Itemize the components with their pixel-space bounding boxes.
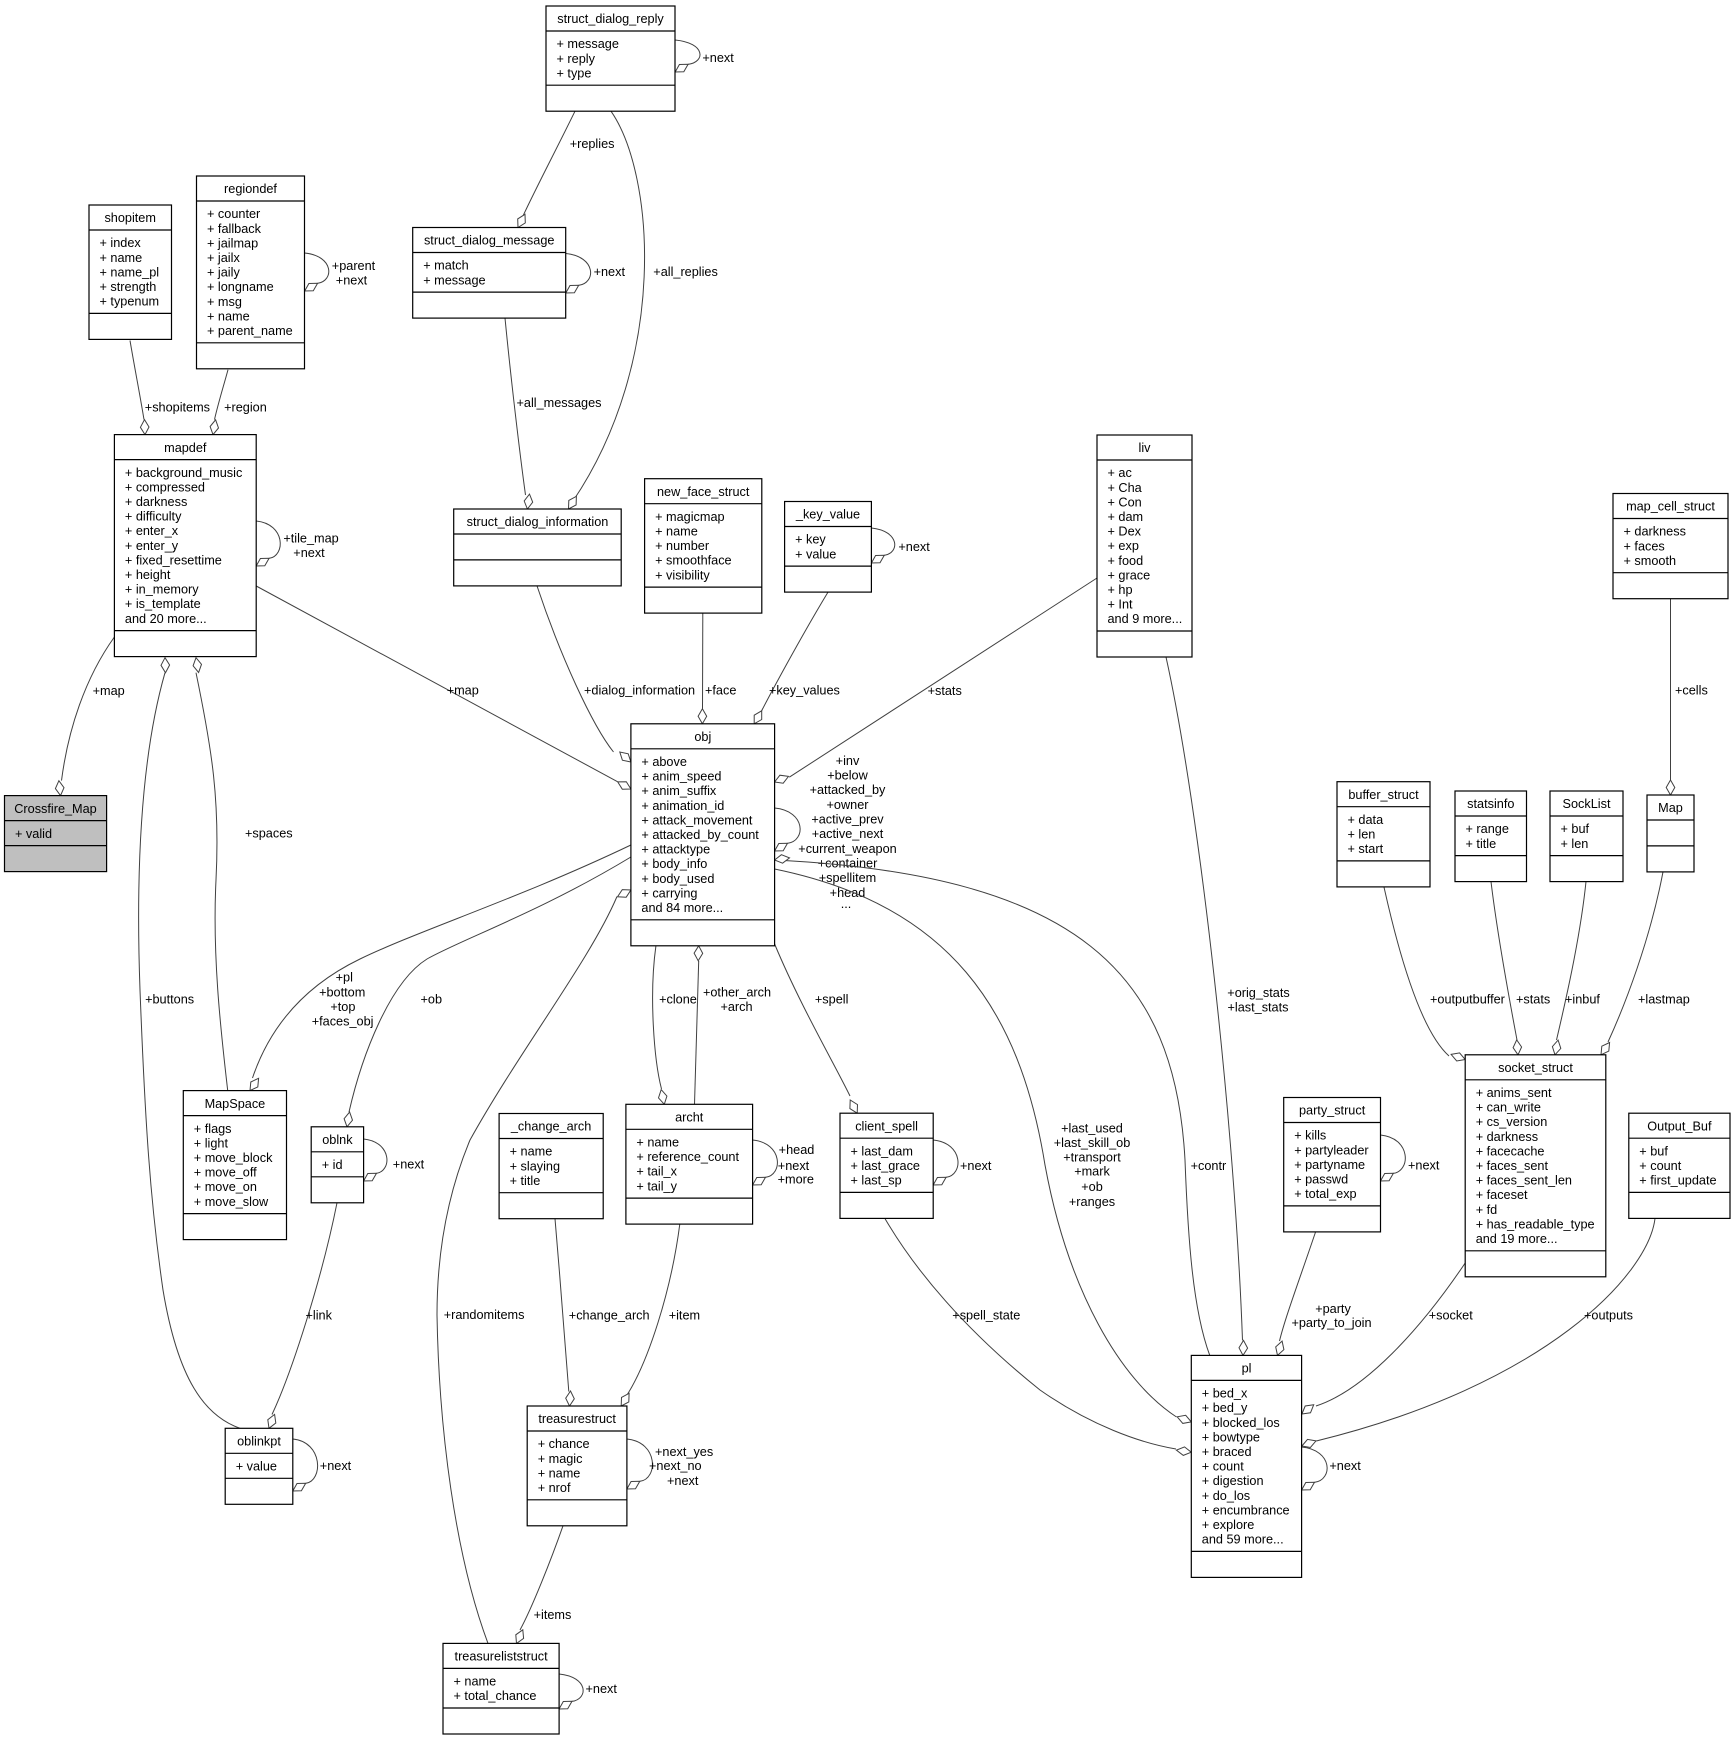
node Output_Buf [1629, 1113, 1730, 1218]
node struct_dialog_information [454, 509, 622, 586]
svg-text:+ passwd: + passwd [1294, 1173, 1348, 1187]
svg-text:+next: +next [336, 274, 368, 288]
svg-text:+ title: + title [1466, 837, 1497, 851]
wire sdm to sdi all_messages [505, 318, 601, 509]
svg-text:and 20 more...: and 20 more... [125, 612, 207, 626]
svg-text:+ name: + name [207, 309, 250, 323]
svg-text:+ range: + range [1466, 822, 1509, 836]
svg-text:+ total_exp: + total_exp [1294, 1187, 1356, 1201]
svg-text:+ob: +ob [421, 992, 443, 1006]
svg-text:+ Int: + Int [1108, 598, 1134, 612]
svg-text:+ fallback: + fallback [207, 222, 262, 236]
svg-text:+replies: +replies [570, 137, 615, 151]
svg-text:+ name: + name [454, 1675, 497, 1689]
wire socket to pl socket [1302, 1263, 1473, 1414]
svg-text:+all_messages: +all_messages [517, 396, 602, 410]
svg-text:+mark: +mark [1074, 1165, 1110, 1179]
node _key_value [785, 502, 872, 593]
svg-text:oblinkpt: oblinkpt [237, 1435, 281, 1449]
svg-text:+ jaily: + jaily [207, 266, 240, 280]
svg-text:+ attack_movement: + attack_movement [641, 813, 753, 827]
svg-text:+tile_map: +tile_map [283, 532, 338, 546]
svg-text:+ key: + key [795, 533, 826, 547]
svg-text:_key_value: _key_value [795, 508, 860, 522]
svg-text:obj: obj [694, 730, 711, 744]
svg-text:+spaces: +spaces [245, 827, 293, 841]
svg-text:+ move_off: + move_off [194, 1166, 257, 1180]
svg-text:+ partyname: + partyname [1294, 1158, 1365, 1172]
svg-text:+head: +head [779, 1143, 815, 1157]
svg-text:+ Dex: + Dex [1108, 525, 1142, 539]
svg-text:pl: pl [1242, 1362, 1252, 1376]
svg-text:+last_skill_ob: +last_skill_ob [1054, 1136, 1131, 1150]
svg-text:+orig_stats: +orig_stats [1227, 986, 1289, 1000]
svg-text:+ faceset: + faceset [1476, 1188, 1528, 1202]
svg-text:archt: archt [675, 1111, 704, 1125]
svg-text:+face: +face [705, 683, 736, 697]
svg-text:+ Cha: + Cha [1108, 481, 1143, 495]
svg-text:+ reply: + reply [557, 52, 596, 66]
svg-text:+dialog_information: +dialog_information [584, 683, 695, 697]
wire socklist to socket inbuf [1552, 882, 1600, 1055]
svg-text:+ grace: + grace [1108, 568, 1151, 582]
node shopitem [89, 205, 172, 339]
svg-text:+current_weapon: +current_weapon [798, 842, 896, 856]
svg-text:+next: +next [393, 1158, 425, 1172]
svg-text:+other_arch: +other_arch [703, 985, 771, 999]
svg-text:+ nrof: + nrof [538, 1481, 571, 1495]
svg-text:+ jailx: + jailx [207, 251, 240, 265]
svg-text:+ type: + type [557, 66, 592, 80]
node _change_arch [499, 1114, 603, 1219]
svg-text:+ counter: + counter [207, 207, 261, 221]
svg-text:+cells: +cells [1675, 683, 1708, 697]
svg-text:+ faces: + faces [1624, 539, 1665, 553]
svg-text:+ exp: + exp [1108, 539, 1139, 553]
svg-text:+ value: + value [236, 1460, 277, 1474]
svg-text:+ parent_name: + parent_name [207, 324, 293, 338]
svg-text:+ facecache: + facecache [1476, 1144, 1545, 1158]
svg-text:+ blocked_los: + blocked_los [1202, 1416, 1280, 1430]
svg-text:+ darkness: + darkness [125, 495, 187, 509]
svg-text:+ buf: + buf [1639, 1144, 1668, 1158]
wire sdr to sdi all_replies [569, 111, 718, 509]
node pl [1191, 1355, 1301, 1577]
svg-text:+ message: + message [423, 273, 485, 287]
svg-text:+ magic: + magic [538, 1452, 583, 1466]
wire obj to pl contr [775, 855, 1227, 1355]
svg-text:+ carrying: + carrying [641, 886, 697, 900]
svg-text:+next: +next [594, 265, 626, 279]
svg-text:+attacked_by: +attacked_by [810, 783, 886, 797]
svg-text:buffer_struct: buffer_struct [1348, 788, 1419, 802]
svg-text:+ count: + count [1202, 1460, 1244, 1474]
wire struct_dialog_message next loop [566, 254, 626, 294]
svg-text:+spell: +spell [815, 992, 849, 1006]
svg-text:+next: +next [960, 1159, 992, 1173]
svg-text:+ compressed: + compressed [125, 480, 205, 494]
node struct_dialog_reply [546, 6, 675, 111]
svg-text:struct_dialog_information: struct_dialog_information [467, 515, 609, 529]
svg-text:mapdef: mapdef [164, 441, 207, 455]
wire obj to archt other_arch/arch [694, 946, 771, 1105]
svg-text:+pl: +pl [336, 971, 353, 985]
svg-text:+ smoothface: + smoothface [655, 554, 732, 568]
svg-text:+ flags: + flags [194, 1122, 232, 1136]
node map_cell_struct [1613, 494, 1728, 599]
wire sdr to sdm replies [518, 111, 615, 227]
svg-text:+ partyleader: + partyleader [1294, 1143, 1369, 1157]
wire oblinkpt next loop [293, 1439, 352, 1491]
svg-text:+owner: +owner [827, 798, 870, 812]
svg-text:+items: +items [534, 1608, 572, 1622]
svg-text:+next: +next [667, 1474, 699, 1488]
svg-text:+ Con: + Con [1108, 495, 1142, 509]
svg-text:Map: Map [1658, 801, 1683, 815]
svg-text:+ name: + name [510, 1145, 553, 1159]
node oblinkpt [225, 1428, 293, 1504]
node regiondef [197, 176, 305, 369]
wire oblnk to oblinkpt link [268, 1203, 337, 1429]
svg-text:+randomitems: +randomitems [444, 1308, 525, 1322]
svg-text:+ background_music: + background_music [125, 466, 243, 480]
node struct_dialog_message [413, 228, 566, 319]
svg-text:new_face_struct: new_face_struct [657, 485, 750, 499]
svg-text:+stats: +stats [928, 684, 962, 698]
wire party_struct next loop [1381, 1135, 1440, 1181]
wire obj to cspell spell [775, 944, 858, 1113]
svg-text:+ last_grace: + last_grace [851, 1159, 920, 1173]
svg-text:+ magicmap: + magicmap [655, 510, 724, 524]
wire obj to pl last_used stack [775, 869, 1192, 1423]
svg-text:+next_yes: +next_yes [655, 1445, 713, 1459]
svg-text:+spell_state: +spell_state [952, 1308, 1020, 1322]
wire shopitem to mapdef shopitems [130, 341, 210, 435]
svg-text:+ cs_version: + cs_version [1476, 1115, 1548, 1129]
node buffer_struct [1337, 782, 1430, 887]
node archt [626, 1104, 753, 1224]
svg-text:+ data: + data [1348, 813, 1385, 827]
svg-text:+ anims_sent: + anims_sent [1476, 1086, 1552, 1100]
svg-text:+ move_slow: + move_slow [194, 1195, 269, 1209]
svg-text:+parent: +parent [332, 259, 376, 273]
wire archt head/next/more loop [753, 1140, 815, 1186]
wire sdi to obj dialog_information [537, 586, 695, 762]
svg-text:treasureliststruct: treasureliststruct [455, 1650, 549, 1664]
svg-text:+ title: + title [510, 1174, 541, 1188]
svg-text:+ move_on: + move_on [194, 1180, 257, 1194]
wire kv to obj key_values [754, 592, 840, 724]
svg-text:+all_replies: +all_replies [653, 265, 718, 279]
svg-text:+ reference_count: + reference_count [636, 1150, 739, 1164]
svg-text:+last_used: +last_used [1061, 1121, 1123, 1135]
svg-text:+ name: + name [636, 1136, 679, 1150]
svg-text:+ attacktype: + attacktype [641, 843, 710, 857]
svg-text:+ tail_y: + tail_y [636, 1179, 677, 1193]
node obj [631, 724, 775, 946]
wire obj randomitems to tls [437, 890, 631, 1644]
wire cspell to pl spell_state [885, 1219, 1191, 1456]
wire obj to mapspace pl stack [250, 845, 631, 1091]
svg-text:Crossfire_Map: Crossfire_Map [14, 802, 97, 816]
svg-text:+next_no: +next_no [649, 1459, 702, 1473]
svg-text:+map: +map [93, 684, 125, 698]
svg-text:+inbuf: +inbuf [1565, 992, 1600, 1006]
wire mapdef to obj map [256, 586, 631, 789]
svg-text:struct_dialog_message: struct_dialog_message [424, 234, 554, 248]
svg-text:+faces_obj: +faces_obj [312, 1015, 374, 1029]
wire mcs to map cells [1666, 599, 1708, 795]
svg-text:+ faces_sent: + faces_sent [1476, 1159, 1549, 1173]
svg-text:+contr: +contr [1191, 1159, 1227, 1173]
svg-text:+ in_memory: + in_memory [125, 583, 199, 597]
svg-text:+ animation_id: + animation_id [641, 799, 724, 813]
wire ts to tls items [516, 1526, 572, 1644]
svg-text:socket_struct: socket_struct [1498, 1061, 1573, 1075]
svg-text:+ first_update: + first_update [1639, 1174, 1716, 1188]
svg-text:+ braced: + braced [1202, 1445, 1252, 1459]
svg-text:+ move_block: + move_block [194, 1151, 273, 1165]
svg-text:+outputbuffer: +outputbuffer [1430, 992, 1506, 1006]
svg-text:+active_prev: +active_prev [811, 813, 884, 827]
svg-text:+stats: +stats [1516, 992, 1550, 1006]
wire obj self loop [775, 754, 897, 911]
svg-text:+ chance: + chance [538, 1437, 590, 1451]
svg-text:+ explore: + explore [1202, 1518, 1255, 1532]
svg-text:client_spell: client_spell [855, 1119, 918, 1133]
svg-text:+ hp: + hp [1108, 583, 1133, 597]
svg-text:SockList: SockList [1563, 797, 1611, 811]
svg-text:+ has_readable_type: + has_readable_type [1476, 1217, 1595, 1231]
wire client_spell next loop [933, 1140, 992, 1185]
svg-text:struct_dialog_reply: struct_dialog_reply [557, 12, 664, 26]
wire buf to socket outputbuffer [1384, 887, 1506, 1061]
svg-text:party_struct: party_struct [1299, 1104, 1366, 1118]
wire obuf to pl outputs [1302, 1219, 1655, 1448]
svg-text:+ last_dam: + last_dam [851, 1144, 913, 1158]
svg-text:+ kills: + kills [1294, 1129, 1326, 1143]
svg-text:+ light: + light [194, 1136, 229, 1150]
node statsinfo [1455, 791, 1527, 882]
svg-text:+ faces_sent_len: + faces_sent_len [1476, 1174, 1572, 1188]
svg-text:+ranges: +ranges [1069, 1195, 1115, 1209]
wire pl next loop [1302, 1447, 1362, 1490]
wire struct_dialog_reply next loop [675, 40, 734, 72]
svg-text:+ id: + id [322, 1158, 343, 1172]
svg-text:+ anim_suffix: + anim_suffix [641, 784, 717, 798]
svg-text:and 19 more...: and 19 more... [1476, 1232, 1558, 1246]
node oblnk [311, 1127, 363, 1203]
svg-text:+ is_template: + is_template [125, 597, 201, 611]
svg-text:+ anim_speed: + anim_speed [641, 770, 721, 784]
wire party to pl party/party_to_join [1276, 1232, 1372, 1355]
svg-text:+ can_write: + can_write [1476, 1101, 1541, 1115]
svg-text:+next: +next [898, 540, 930, 554]
svg-text:+change_arch: +change_arch [569, 1308, 650, 1322]
svg-text:+next: +next [320, 1459, 352, 1473]
node Crossfire_Map [5, 796, 107, 872]
svg-text:+arch: +arch [720, 1000, 752, 1014]
svg-text:+region: +region [224, 401, 267, 415]
node party_struct [1284, 1098, 1381, 1232]
svg-text:+ bed_x: + bed_x [1202, 1387, 1248, 1401]
svg-text:+ darkness: + darkness [1476, 1130, 1538, 1144]
svg-text:+ digestion: + digestion [1202, 1474, 1264, 1488]
svg-text:treasurestruct: treasurestruct [538, 1412, 616, 1426]
svg-text:statsinfo: statsinfo [1467, 797, 1514, 811]
svg-text:+ index: + index [100, 236, 142, 250]
wire obj to liv stats [775, 578, 1097, 783]
svg-text:+inv: +inv [836, 754, 860, 768]
svg-text:+ total_chance: + total_chance [454, 1689, 537, 1703]
svg-text:+ strength: + strength [100, 280, 157, 294]
wire mapdef to oblinkpt buttons [139, 658, 240, 1429]
svg-text:+outputs: +outputs [1584, 1308, 1633, 1322]
svg-text:+map: +map [447, 683, 479, 697]
svg-text:regiondef: regiondef [224, 182, 277, 196]
svg-text:+next: +next [1329, 1459, 1361, 1473]
svg-text:+ dam: + dam [1108, 510, 1144, 524]
node Map [1647, 795, 1694, 872]
svg-text:+next: +next [1408, 1159, 1440, 1173]
svg-text:and 9 more...: and 9 more... [1108, 612, 1183, 626]
svg-text:+ do_los: + do_los [1202, 1489, 1250, 1503]
svg-text:+top: +top [330, 1000, 355, 1014]
svg-text:liv: liv [1139, 441, 1152, 455]
svg-text:+next: +next [586, 1682, 618, 1696]
svg-text:+ len: + len [1561, 837, 1589, 851]
svg-text:+ message: + message [557, 37, 619, 51]
svg-text:Output_Buf: Output_Buf [1647, 1119, 1712, 1133]
wire obj to oblnk ob [344, 857, 631, 1127]
svg-text:+buttons: +buttons [145, 992, 194, 1006]
svg-text:+ longname: + longname [207, 280, 274, 294]
wire nfs to obj face [698, 613, 736, 724]
svg-text:+ ac: + ac [1108, 466, 1133, 480]
svg-text:+next: +next [778, 1159, 810, 1173]
svg-text:+ msg: + msg [207, 295, 242, 309]
svg-text:+bottom: +bottom [319, 985, 365, 999]
svg-text:+ visibility: + visibility [655, 568, 710, 582]
node mapdef [114, 435, 256, 657]
wire _key_value next loop [871, 528, 930, 563]
svg-text:+ smooth: + smooth [1624, 554, 1677, 568]
svg-text:+ enter_y: + enter_y [125, 539, 179, 553]
svg-text:+next: +next [293, 546, 325, 560]
wire obj to archt clone [653, 946, 697, 1104]
svg-text:+ name: + name [655, 525, 698, 539]
wire map to socket lastmap [1601, 872, 1690, 1055]
svg-text:+link: +link [306, 1308, 333, 1322]
svg-text:+ darkness: + darkness [1624, 525, 1686, 539]
wire statsinfo to socket stats [1491, 882, 1550, 1055]
svg-text:+ buf: + buf [1561, 822, 1590, 836]
svg-text:+party: +party [1315, 1302, 1351, 1316]
svg-text:+ name: + name [100, 251, 143, 265]
svg-text:+ encumbrance: + encumbrance [1202, 1503, 1290, 1517]
wire cha to ts change_arch [555, 1219, 650, 1406]
svg-text:+lastmap: +lastmap [1638, 992, 1690, 1006]
svg-text:+ number: + number [655, 539, 710, 553]
svg-text:+next: +next [702, 51, 734, 65]
wire treasurestruct loop [627, 1439, 713, 1489]
svg-text:+more: +more [778, 1172, 814, 1186]
node treasureliststruct [443, 1643, 559, 1734]
svg-text:+ fixed_resettime: + fixed_resettime [125, 553, 222, 567]
wire mapdef to Crossfire_Map map [55, 637, 124, 796]
wire liv to pl orig_stats/last_stats [1166, 657, 1290, 1355]
node MapSpace [183, 1091, 286, 1240]
svg-text:+ tail_x: + tail_x [636, 1165, 677, 1179]
svg-text:+ body_info: + body_info [641, 857, 707, 871]
node liv [1097, 435, 1192, 657]
wire oblnk next loop [364, 1139, 425, 1181]
node client_spell [840, 1113, 933, 1218]
svg-text:+ match: + match [423, 259, 468, 273]
svg-text:+ difficulty: + difficulty [125, 510, 182, 524]
svg-text:+ height: + height [125, 568, 171, 582]
svg-text:+transport: +transport [1063, 1150, 1121, 1164]
svg-text:+ bowtype: + bowtype [1202, 1430, 1260, 1444]
svg-text:+below: +below [827, 768, 868, 782]
wire mapdef to mapspace spaces [193, 658, 293, 1091]
svg-text:+ last_sp: + last_sp [851, 1174, 902, 1188]
svg-text:+ob: +ob [1081, 1180, 1103, 1194]
svg-text:and 84 more...: and 84 more... [641, 901, 723, 915]
svg-text:oblnk: oblnk [322, 1133, 353, 1147]
svg-text:+ attacked_by_count: + attacked_by_count [641, 828, 759, 842]
svg-text:+item: +item [669, 1308, 700, 1322]
svg-text:+ valid: + valid [15, 827, 52, 841]
svg-text:+clone: +clone [659, 992, 697, 1006]
node SockList [1550, 791, 1623, 882]
svg-text:+ start: + start [1348, 842, 1384, 856]
svg-text:+party_to_join: +party_to_join [1291, 1316, 1371, 1330]
node treasurestruct [527, 1406, 627, 1526]
svg-text:+ above: + above [641, 755, 687, 769]
wire regiondef parent/next loop [305, 253, 376, 291]
svg-text:+ count: + count [1639, 1159, 1681, 1173]
svg-text:+socket: +socket [1429, 1308, 1474, 1322]
svg-text:+ food: + food [1108, 554, 1144, 568]
wire mapdef tile_map/next loop [256, 521, 338, 566]
svg-text:+ fd: + fd [1476, 1203, 1498, 1217]
node new_face_struct [645, 479, 762, 613]
wire treasureliststruct next loop [559, 1674, 617, 1709]
wire archt to ts item [621, 1224, 700, 1406]
svg-text:+last_stats: +last_stats [1227, 1001, 1288, 1015]
svg-text:...: ... [841, 897, 852, 911]
svg-text:MapSpace: MapSpace [205, 1097, 266, 1111]
svg-text:shopitem: shopitem [104, 211, 155, 225]
svg-text:+active_next: +active_next [812, 827, 884, 841]
node socket_struct [1465, 1055, 1606, 1277]
svg-text:+ bed_y: + bed_y [1202, 1401, 1248, 1415]
svg-text:+ slaying: + slaying [510, 1159, 560, 1173]
svg-text:+ name_pl: + name_pl [100, 265, 160, 279]
svg-text:_change_arch: _change_arch [510, 1120, 591, 1134]
svg-text:+ enter_x: + enter_x [125, 524, 179, 538]
svg-text:+ jailmap: + jailmap [207, 236, 258, 250]
svg-text:map_cell_struct: map_cell_struct [1626, 500, 1715, 514]
svg-text:+ value: + value [795, 547, 836, 561]
svg-text:+ name: + name [538, 1466, 581, 1480]
svg-text:+ len: + len [1348, 828, 1376, 842]
svg-text:+shopitems: +shopitems [145, 401, 210, 415]
svg-text:+ typenum: + typenum [100, 295, 160, 309]
svg-text:+ body_used: + body_used [641, 872, 714, 886]
wire regiondef to mapdef region [210, 370, 267, 435]
